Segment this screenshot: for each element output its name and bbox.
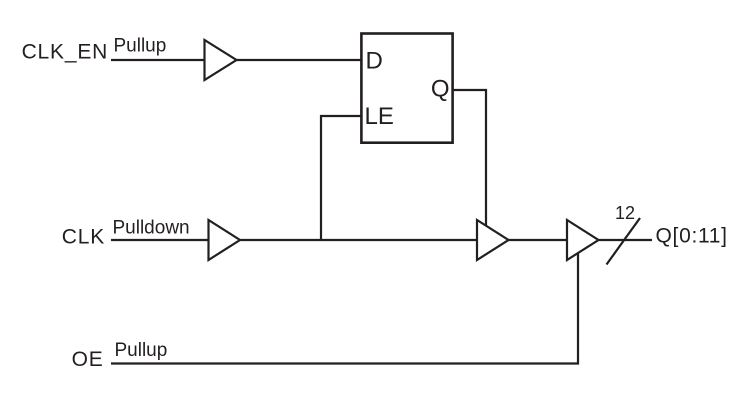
buffer U3 (gated by Q): [477, 220, 509, 260]
latch U5 body: [361, 34, 452, 143]
svg-text:Pulldown: Pulldown: [113, 218, 190, 239]
svg-text:OE: OE: [72, 348, 104, 371]
svg-text:D: D: [366, 48, 383, 75]
buffer U2 (CLK): [209, 220, 241, 260]
svg-text:12: 12: [615, 203, 635, 223]
buffer U4 (output, enabled by OE): [567, 220, 599, 260]
wire CLK_EN input: [111, 59, 205, 61]
svg-text:CLK: CLK: [62, 226, 105, 249]
svg-text:Pullup: Pullup: [115, 340, 168, 361]
bus-width slash: [607, 218, 641, 265]
wire U3 output to U4: [509, 239, 568, 241]
buffer U1 (CLK_EN): [205, 40, 237, 80]
wire OE input: [111, 253, 578, 363]
svg-text:CLK_EN: CLK_EN: [22, 41, 109, 64]
wire U1 output to latch D: [237, 59, 362, 61]
wire U4 output to Q[0:11]: [599, 239, 653, 241]
svg-text:Pullup: Pullup: [114, 36, 167, 57]
svg-text:Q: Q: [431, 76, 450, 103]
svg-text:LE: LE: [365, 103, 394, 130]
wire U2 output to U3: [240, 239, 477, 241]
wire CLK input: [111, 239, 209, 241]
svg-text:Q[0:11]: Q[0:11]: [656, 225, 728, 248]
wire latch Q output: [453, 90, 486, 227]
wire node LE branch: [321, 116, 361, 240]
